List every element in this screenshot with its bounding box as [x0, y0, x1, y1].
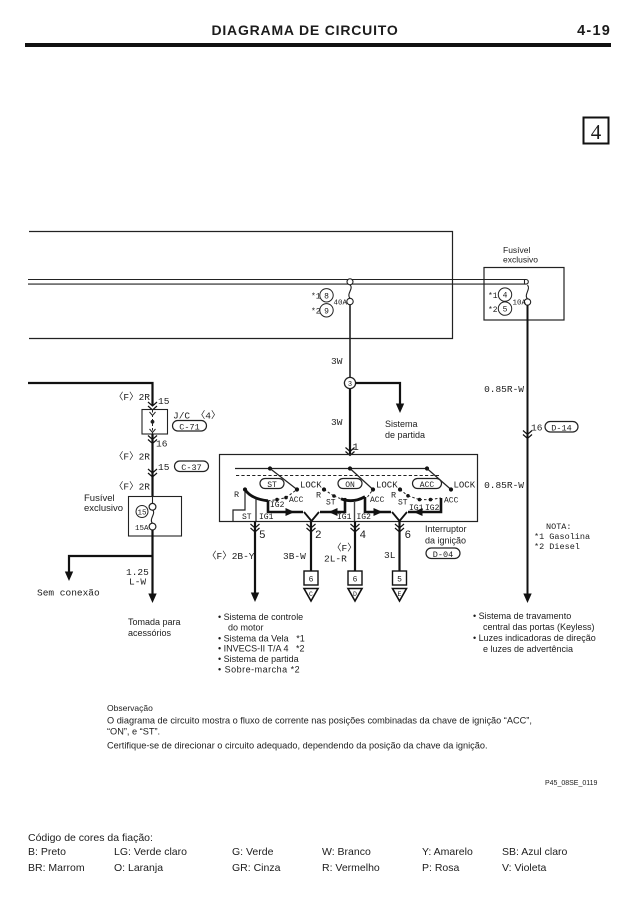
left dedicated fuse box 15A: [129, 497, 182, 537]
ignition switch SW1 view ST: [233, 487, 319, 522]
svg-text:G: Verde: G: Verde: [232, 846, 274, 858]
svg-text:0.85R-W: 0.85R-W: [484, 480, 524, 491]
svg-text:C-37: C-37: [181, 463, 201, 473]
svg-text:6: 6: [405, 530, 412, 542]
svg-text:de partida: de partida: [385, 430, 425, 440]
svg-text:DIAGRAMA DE CIRCUITO: DIAGRAMA DE CIRCUITO: [211, 22, 398, 38]
svg-text:10A: 10A: [513, 300, 527, 308]
exit 2: [283, 522, 322, 602]
svg-text:15: 15: [158, 462, 170, 473]
label tomada para acessorios: [128, 617, 181, 638]
svg-text:• Sistema de travamento: • Sistema de travamento: [473, 611, 571, 621]
branch to starting system: [356, 383, 425, 440]
svg-text:*2: *2: [488, 306, 498, 315]
svg-text:• Luzes indicadoras de direção: • Luzes indicadoras de direção: [473, 633, 596, 643]
svg-text:〈F〉2R: 〈F〉2R: [114, 452, 150, 463]
svg-text:C-71: C-71: [179, 422, 199, 432]
svg-text:Código de cores da fiação:: Código de cores da fiação:: [28, 832, 153, 844]
svg-text:15A: 15A: [135, 525, 149, 533]
svg-text:B: Preto: B: Preto: [28, 846, 66, 858]
svg-text:LOCK: LOCK: [454, 481, 476, 491]
svg-text:e luzes de advertência: e luzes de advertência: [483, 644, 573, 654]
header title: [211, 22, 398, 38]
left dedicated fuse label: [84, 493, 123, 514]
svg-text:9: 9: [324, 307, 329, 316]
svg-text:Observação: Observação: [107, 703, 153, 713]
svg-text:〈F〉: 〈F〉: [332, 543, 357, 554]
LOCK labels: [300, 481, 476, 491]
svg-text:*1 Gasolina: *1 Gasolina: [534, 532, 590, 542]
svg-text:4: 4: [591, 120, 602, 144]
svg-text:ACC: ACC: [444, 497, 459, 506]
svg-text:Sistema: Sistema: [385, 419, 418, 429]
wire ACC current path with arrow: [365, 497, 391, 512]
ACC position oval: [413, 479, 442, 490]
svg-text:6: 6: [309, 576, 314, 585]
contact R: [243, 487, 247, 491]
svg-text:40A: 40A: [334, 300, 348, 308]
dashed rail: [236, 475, 441, 477]
svg-text:3W: 3W: [331, 356, 343, 367]
right bullet list: [473, 611, 596, 654]
svg-text:• Sistema da Vela *1: • Sistema da Vela *1: [218, 634, 305, 644]
label 1.25 L-W: [126, 567, 149, 588]
svg-text:W: Branco: W: Branco: [322, 846, 371, 858]
svg-text:D-04: D-04: [433, 550, 453, 560]
svg-text:“ON”, e “ST”.: “ON”, e “ST”.: [107, 727, 160, 737]
svg-text:LOCK: LOCK: [300, 481, 322, 491]
dedicated fuse box (right): [484, 245, 564, 320]
svg-text:0.85R-W: 0.85R-W: [484, 384, 524, 395]
svg-text:O: Laranja: O: Laranja: [114, 862, 163, 874]
color code legend: [28, 832, 568, 874]
svg-text:P45_08SE_0119: P45_08SE_0119: [545, 780, 598, 787]
svg-text:exclusivo: exclusivo: [503, 255, 538, 265]
rotor contact arc: [245, 490, 268, 501]
svg-text:da ignição: da ignição: [425, 536, 466, 546]
svg-text:ACC: ACC: [420, 481, 435, 490]
svg-text:LOCK: LOCK: [376, 481, 398, 491]
wire IG1 current path with arrow: [320, 500, 345, 512]
svg-text:5: 5: [397, 576, 402, 585]
svg-text:2L-R: 2L-R: [324, 554, 347, 565]
svg-text:15: 15: [158, 396, 170, 407]
svg-text:exclusivo: exclusivo: [84, 503, 123, 514]
svg-text:R: Vermelho: R: Vermelho: [322, 862, 380, 874]
svg-text:IG2: IG2: [270, 501, 285, 510]
pin 16 + connector D-14: [523, 422, 578, 439]
svg-text:LG: Verde claro: LG: Verde claro: [114, 846, 187, 858]
svg-text:3W: 3W: [331, 417, 343, 428]
svg-text:Y: Amarelo: Y: Amarelo: [422, 846, 473, 858]
svg-text:IG1: IG1: [337, 513, 352, 522]
contact R: [322, 487, 326, 491]
wire IG1 current path with arrow: [268, 501, 303, 512]
svg-text:IG1: IG1: [259, 513, 274, 522]
wire ACC current path with arrow: [408, 498, 441, 512]
svg-text:4: 4: [503, 292, 508, 301]
svg-text:• Sobre-marcha *2: • Sobre-marcha *2: [218, 665, 300, 675]
svg-text:R: R: [316, 491, 321, 501]
wire R terminal: [233, 492, 245, 522]
svg-text:3: 3: [348, 381, 352, 389]
svg-text:D-14: D-14: [551, 423, 571, 433]
feed wire from left: [28, 383, 153, 405]
svg-text:BR: Marrom: BR: Marrom: [28, 862, 85, 874]
rotor contact arc: [341, 497, 365, 501]
svg-text:R: R: [391, 491, 396, 501]
svg-text:SB: Azul claro: SB: Azul claro: [502, 846, 568, 858]
NOTA block: [534, 522, 590, 552]
svg-text:3B-W: 3B-W: [283, 551, 306, 562]
svg-text:*2: *2: [311, 308, 321, 317]
svg-text:IG2: IG2: [357, 513, 372, 522]
left bullet list: [218, 612, 305, 675]
diagonals to LOCK: [270, 469, 453, 492]
svg-text:Certifique-se de direcionar o: Certifique-se de direcionar o circuito a…: [107, 741, 488, 751]
ignition switch SW1 view ACC: [391, 487, 459, 516]
svg-text:8: 8: [324, 292, 329, 301]
svg-text:ST: ST: [326, 499, 336, 508]
exit 6: [384, 522, 411, 602]
chevron: [148, 402, 157, 410]
ignition switch SW1 view ON: [316, 487, 407, 522]
observacao paragraph: [107, 703, 532, 751]
svg-text:V: Violeta: V: Violeta: [502, 862, 547, 874]
contact R: [398, 487, 402, 491]
svg-text:acessórios: acessórios: [128, 628, 172, 638]
junction connector circle: [344, 377, 355, 389]
switch name: [425, 524, 467, 560]
wire below fuse box, branch and arrows: [65, 530, 157, 603]
svg-text:GR: Cinza: GR: Cinza: [232, 862, 281, 874]
svg-text:*2 Diesel: *2 Diesel: [534, 542, 580, 552]
ST position oval: [260, 479, 284, 490]
svg-text:6: 6: [353, 576, 358, 585]
wire below J/C: [151, 434, 153, 496]
battery bus wire (hollow double line): [28, 280, 528, 285]
svg-text:〈F〉2R: 〈F〉2R: [114, 392, 150, 403]
header rule: [25, 43, 611, 47]
wire IG2 terminal to pin 4: [354, 501, 356, 521]
chevron under box: [148, 436, 157, 444]
header page number: [577, 23, 611, 39]
svg-text:ON: ON: [345, 481, 355, 490]
svg-text:• Sistema de controle: • Sistema de controle: [218, 612, 303, 622]
svg-text:R: R: [234, 490, 239, 500]
svg-text:do motor: do motor: [228, 623, 264, 633]
svg-text:• Sistema de partida: • Sistema de partida: [218, 654, 299, 664]
wire merge to pin 6: [392, 512, 407, 521]
ON position oval: [338, 479, 362, 490]
svg-text:C: C: [309, 591, 313, 598]
wire ST terminal to pin 5: [255, 499, 257, 522]
right column wire: [523, 305, 531, 603]
svg-text:Sem conexão: Sem conexão: [37, 588, 100, 599]
svg-text:*1: *1: [311, 293, 321, 302]
exit 5: [207, 522, 266, 603]
svg-text:ST: ST: [267, 481, 277, 490]
section number box 4: [584, 118, 609, 145]
svg-text:NOTA:: NOTA:: [546, 522, 572, 532]
svg-text:ST: ST: [242, 513, 252, 522]
switch box: [220, 455, 478, 522]
chevron: [148, 469, 157, 477]
svg-text:P: Rosa: P: Rosa: [422, 862, 460, 874]
svg-text:16: 16: [156, 439, 168, 450]
ground C: [304, 589, 318, 602]
svg-text:4: 4: [360, 530, 367, 542]
svg-text:ACC: ACC: [370, 496, 385, 505]
svg-text:16: 16: [531, 423, 543, 434]
svg-text:15: 15: [137, 510, 147, 518]
svg-text:〈F〉2B-Y: 〈F〉2B-Y: [207, 551, 255, 562]
pin 15 + connector C-37: [158, 461, 209, 473]
svg-text:5: 5: [259, 530, 266, 542]
svg-text:ST: ST: [398, 499, 408, 508]
ground D: [348, 589, 362, 602]
svg-text:〈F〉2R: 〈F〉2R: [114, 482, 150, 493]
svg-text:central das portas (Keyless): central das portas (Keyless): [483, 622, 595, 632]
svg-text:Tomada para: Tomada para: [128, 617, 181, 627]
ground E: [393, 589, 407, 602]
svg-text:J/C 〈4〉: J/C 〈4〉: [173, 411, 221, 422]
svg-text:2: 2: [315, 530, 322, 542]
svg-text:D: D: [353, 591, 357, 598]
exit 4: [324, 522, 367, 602]
svg-text:L-W: L-W: [129, 577, 146, 588]
svg-text:Fusível: Fusível: [503, 245, 531, 255]
svg-text:Interruptor: Interruptor: [425, 524, 467, 534]
relay box (open left): [29, 232, 453, 339]
feed rail: [235, 466, 429, 470]
svg-text:*1: *1: [488, 292, 498, 301]
fuse 40A in relay box: [311, 279, 353, 317]
svg-text:ACC: ACC: [289, 496, 304, 505]
svg-text:3L: 3L: [384, 550, 396, 561]
joint connector J/C box: [142, 410, 221, 435]
svg-text:E: E: [398, 591, 402, 598]
svg-text:• INVECS-II T/A 4 *2: • INVECS-II T/A 4 *2: [218, 644, 305, 654]
svg-text:4-19: 4-19: [577, 23, 611, 39]
svg-text:O diagrama de circuito mostra: O diagrama de circuito mostra o fluxo de…: [107, 716, 532, 726]
fuse 10A: [488, 285, 531, 315]
connector chevron on wire: [346, 448, 355, 456]
svg-text:5: 5: [503, 306, 508, 315]
wire from fuse down to ignition switch: [349, 305, 351, 454]
wire merge to pin 2: [304, 512, 319, 521]
